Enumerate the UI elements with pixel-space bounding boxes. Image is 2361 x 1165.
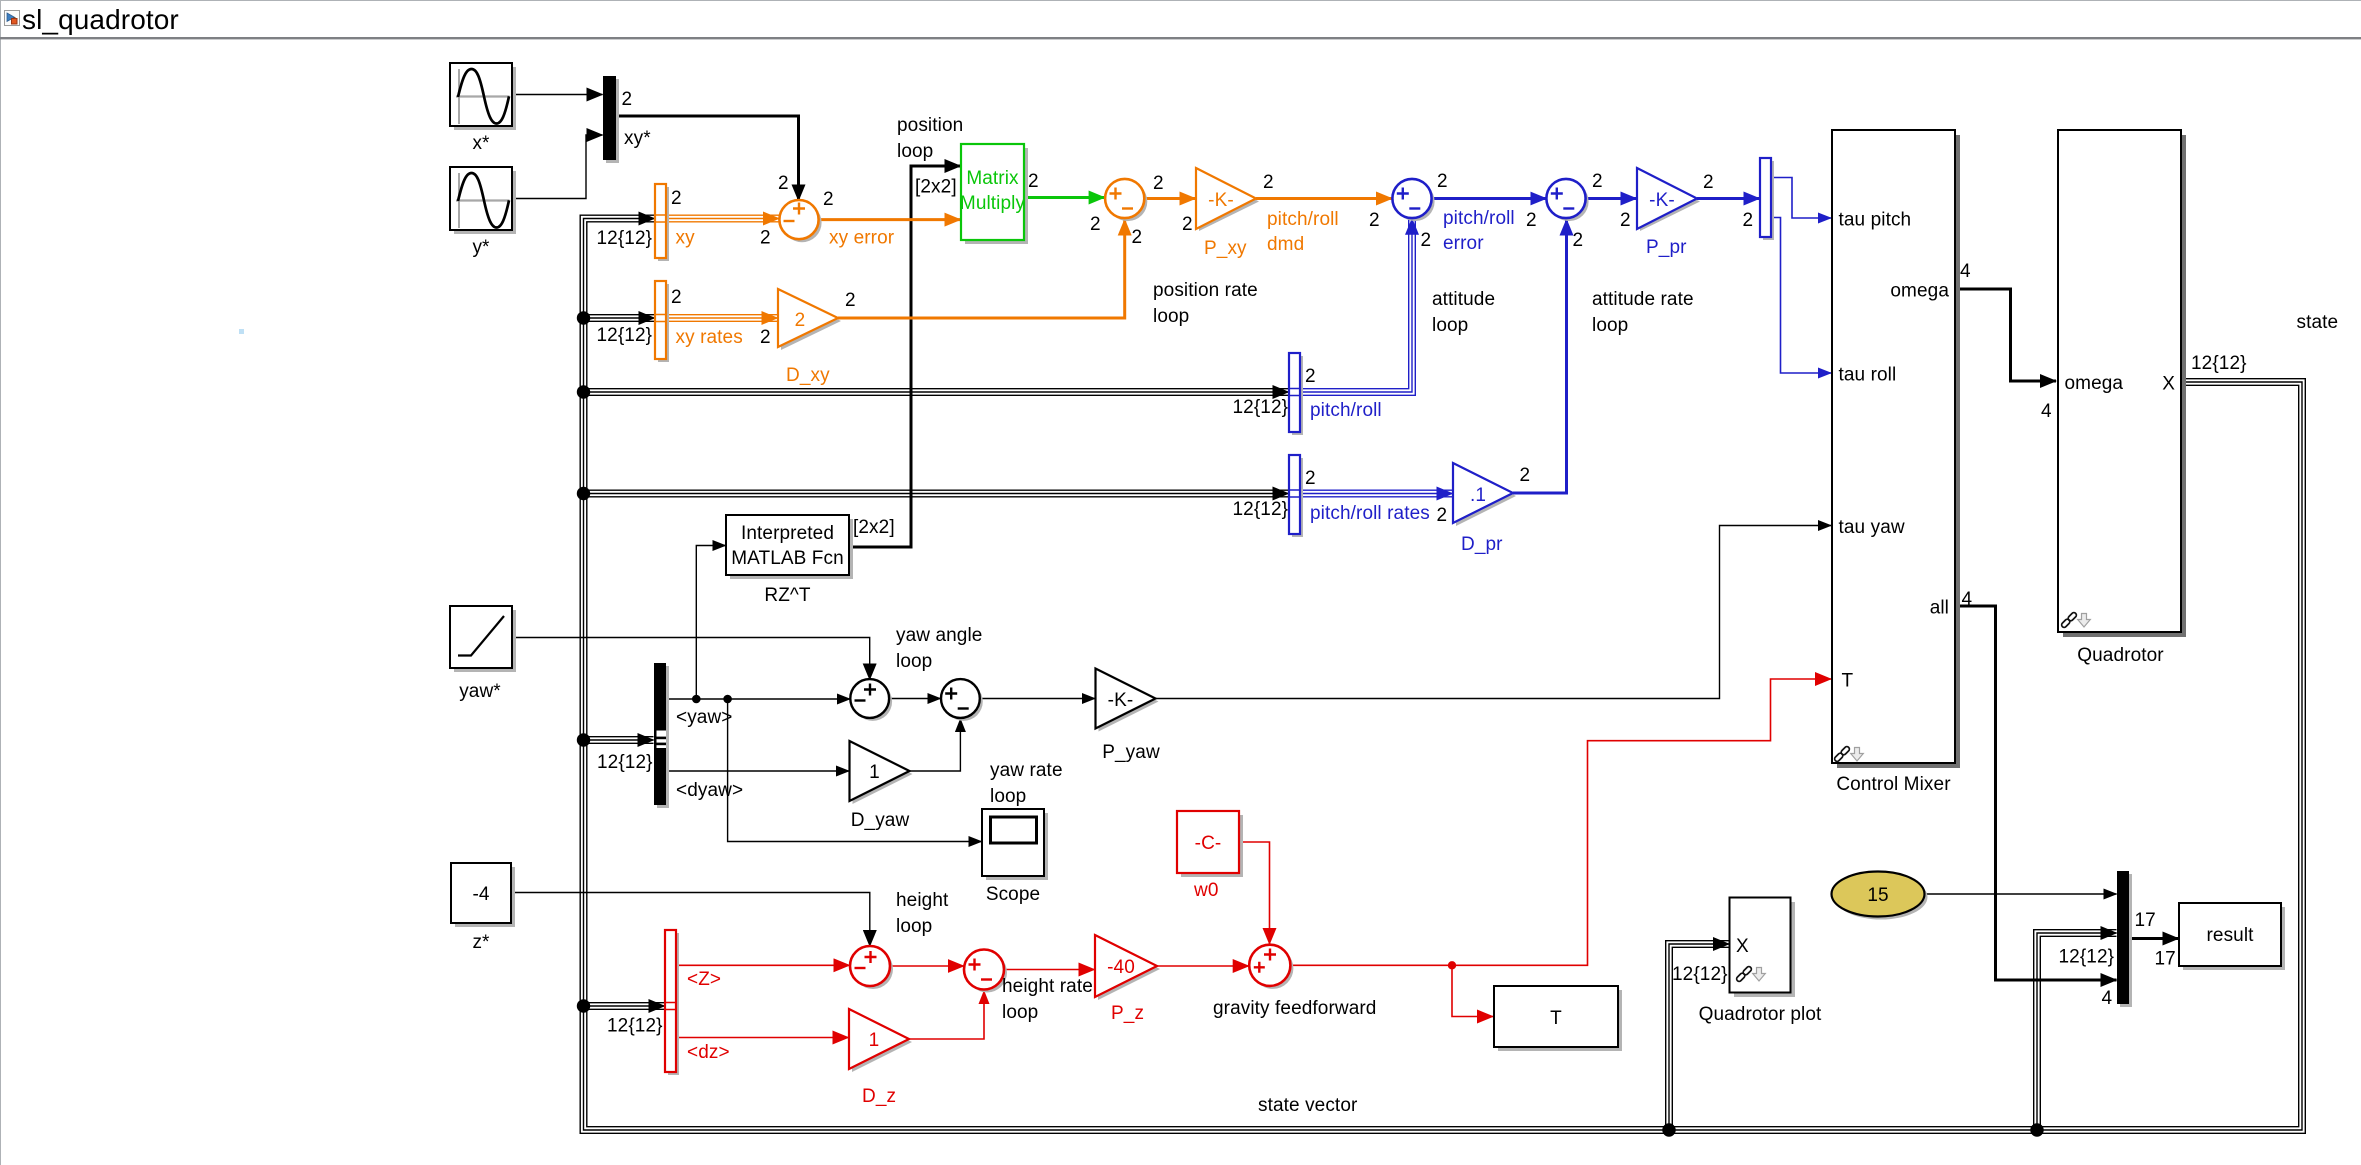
svg-text:loop: loop xyxy=(1432,315,1468,336)
block w0 constant (-C-, red) xyxy=(1177,811,1243,877)
titlebar icon xyxy=(5,11,20,26)
block xy selector (orange) xyxy=(655,184,669,261)
svg-text:2: 2 xyxy=(1132,227,1143,248)
wire bus branch to pitch/roll-rates selector xyxy=(584,490,1289,498)
wire yaw angle sum to yaw rate sum xyxy=(889,698,940,700)
svg-text:Quadrotor: Quadrotor xyxy=(2077,645,2164,666)
op sum height (red circle) xyxy=(850,946,893,989)
svg-text:position: position xyxy=(897,115,963,136)
svg-text:pitch/roll: pitch/roll xyxy=(1310,400,1382,421)
svg-text:tau pitch: tau pitch xyxy=(1839,210,1912,231)
svg-text:2: 2 xyxy=(1573,230,1584,251)
titlebar background xyxy=(0,0,2361,37)
op sum yaw angle (black circle) xyxy=(850,679,892,721)
wire tau demux out2 to Control Mixer tau roll (blue) xyxy=(1771,218,1831,374)
svg-text:-K-: -K- xyxy=(1649,190,1675,211)
wire RZ^T output to Matrix Multiply input ([2x2]) xyxy=(849,166,961,547)
svg-text:y*: y* xyxy=(472,237,490,258)
block result mux xyxy=(2117,871,2132,1007)
wire D_yaw to yaw rate sum bottom xyxy=(910,719,961,771)
icon link badge Quadrotor plot xyxy=(1736,966,1766,983)
svg-text:T: T xyxy=(1842,671,1854,692)
svg-text:2: 2 xyxy=(1620,210,1631,231)
artifact tiny cursor mark xyxy=(239,329,244,334)
wire position-rate sum to P_xy gain (orange) xyxy=(1145,197,1196,200)
svg-text:P_yaw: P_yaw xyxy=(1102,742,1160,763)
wire P_xy to attitude sum (pitch/roll dmd, orange) xyxy=(1256,197,1392,200)
svg-text:12{12}: 12{12} xyxy=(597,228,653,249)
svg-text:sl_quadrotor: sl_quadrotor xyxy=(22,4,179,35)
svg-text:yaw*: yaw* xyxy=(459,681,501,702)
wire yaw* ramp to yaw sum top xyxy=(512,638,870,680)
svg-text:2: 2 xyxy=(671,287,682,308)
svg-text:position rate: position rate xyxy=(1153,280,1258,301)
wire D_pr to attitude-rate sum bottom (blue) xyxy=(1513,220,1567,494)
svg-text:12{12}: 12{12} xyxy=(1672,964,1728,985)
block z* constant (-4) xyxy=(451,863,515,927)
block P_xy gain (orange triangle, -K-) xyxy=(1196,168,1259,231)
wire <yaw> branch to RZ^T fcn input xyxy=(696,546,725,700)
svg-text:error: error xyxy=(1443,233,1484,254)
svg-text:17: 17 xyxy=(2155,949,2176,970)
svg-text:P_pr: P_pr xyxy=(1646,237,1687,258)
wire x* to xy* mux xyxy=(512,94,603,96)
block tau demux (blue) xyxy=(1760,158,1774,240)
block yaw demux (bus selector) xyxy=(654,663,669,808)
svg-text:1: 1 xyxy=(869,1030,880,1051)
svg-text:12{12}: 12{12} xyxy=(607,1016,663,1037)
wire xy-error sum to Matrix Multiply (orange) xyxy=(819,218,961,221)
block Quadrotor plot xyxy=(1730,898,1796,998)
wire Matrix Multiply to position-rate sum (green) xyxy=(1024,196,1105,199)
svg-text:all: all xyxy=(1930,598,1949,619)
wire Control Mixer omega to Quadrotor omega xyxy=(1955,289,2056,381)
icon link badge Control Mixer xyxy=(1834,746,1864,763)
block Control Mixer (subsystem) xyxy=(1832,130,1960,768)
svg-text:<dz>: <dz> xyxy=(687,1042,730,1063)
junction bottom bus at result mux branch xyxy=(2030,1123,2043,1136)
block y* sine wave source xyxy=(450,167,516,234)
wire w0 constant to gravity feedforward sum top (red) xyxy=(1239,842,1270,944)
wire z* constant to height sum top xyxy=(511,893,870,947)
svg-text:12{12}: 12{12} xyxy=(597,752,653,773)
svg-text:4: 4 xyxy=(2102,988,2113,1009)
svg-text:2: 2 xyxy=(1305,366,1316,387)
svg-text:<Z>: <Z> xyxy=(687,969,721,990)
svg-text:17: 17 xyxy=(2135,910,2156,931)
wire <dyaw> to D_yaw gain xyxy=(666,770,849,772)
svg-text:gravity feedforward: gravity feedforward xyxy=(1213,998,1376,1019)
wire D_xy gain to position-rate sum bottom (orange) xyxy=(838,220,1125,319)
svg-text:height rate: height rate xyxy=(1002,976,1093,997)
svg-text:2: 2 xyxy=(1305,468,1316,489)
op sum attitude-rate (blue circle) xyxy=(1546,179,1588,221)
wire bus branch to result mux xyxy=(2037,933,2117,1130)
svg-text:D_z: D_z xyxy=(862,1086,896,1107)
svg-text:loop: loop xyxy=(990,786,1026,807)
svg-text:<yaw>: <yaw> xyxy=(676,707,732,728)
svg-text:Scope: Scope xyxy=(986,884,1040,905)
svg-text:.1: .1 xyxy=(1470,485,1486,506)
svg-text:loop: loop xyxy=(896,651,932,672)
svg-text:P_xy: P_xy xyxy=(1204,238,1247,259)
block pitch/roll-rates selector (blue) xyxy=(1289,455,1303,537)
svg-text:xy error: xy error xyxy=(829,228,895,249)
block xy-rates selector (orange) xyxy=(655,281,669,362)
svg-text:-C-: -C- xyxy=(1195,833,1222,854)
wire y* to xy* mux xyxy=(512,135,603,199)
svg-text:loop: loop xyxy=(1002,1002,1038,1023)
wire bus branch to Quadrotor plot xyxy=(1669,944,1729,1130)
svg-text:2: 2 xyxy=(1421,230,1432,251)
block result xyxy=(2179,903,2285,970)
svg-text:2: 2 xyxy=(1153,173,1164,194)
svg-text:Multiply: Multiply xyxy=(960,193,1026,214)
svg-text:2: 2 xyxy=(1526,210,1537,231)
wire 15 constant to result mux xyxy=(1925,893,2117,895)
svg-text:attitude rate: attitude rate xyxy=(1592,289,1694,310)
svg-text:yaw angle: yaw angle xyxy=(896,625,982,646)
svg-text:xy rates: xy rates xyxy=(676,327,743,348)
op sum xy error (orange circle) xyxy=(779,200,821,242)
op sum height-rate (red circle) xyxy=(964,950,1007,993)
block RZ^T Interpreted MATLAB Fcn xyxy=(726,515,853,579)
wire P_z to gravity feedforward sum (red) xyxy=(1157,965,1249,967)
op sum gravity feedforward (red circle) xyxy=(1249,945,1293,989)
wire xy* mux to xy-error sum top (vector) xyxy=(616,116,799,201)
svg-text:pitch/roll: pitch/roll xyxy=(1267,209,1339,230)
svg-text:P_z: P_z xyxy=(1111,1003,1144,1024)
svg-text:-40: -40 xyxy=(1107,957,1135,978)
op sum position-rate (orange circle) xyxy=(1105,179,1147,221)
svg-text:height: height xyxy=(896,890,949,911)
svg-text:xy: xy xyxy=(676,228,696,249)
svg-text:loop: loop xyxy=(1592,315,1628,336)
junction bus spine at xy-rates branch xyxy=(577,311,590,324)
svg-text:12{12}: 12{12} xyxy=(1233,499,1289,520)
icon link badge Quadrotor xyxy=(2061,612,2091,629)
svg-text:-K-: -K- xyxy=(1208,190,1234,211)
svg-text:state: state xyxy=(2297,312,2339,333)
block T goto xyxy=(1494,986,1622,1051)
svg-text:4: 4 xyxy=(1962,589,1973,610)
wire bus branch to yaw demux xyxy=(584,736,654,744)
svg-text:2: 2 xyxy=(795,310,806,331)
svg-text:2: 2 xyxy=(1369,210,1380,231)
wire attitude sum to attitude-rate sum (blue, pitch/roll error) xyxy=(1432,197,1546,200)
wire state-vector feedback bus: Quadrotor X out, right drop, bottom run, left spine up to xy selector xyxy=(584,219,2303,1131)
svg-text:12{12}: 12{12} xyxy=(2191,353,2247,374)
wire bus branch to z selector xyxy=(584,1002,665,1010)
svg-text:2: 2 xyxy=(1090,214,1101,235)
svg-text:MATLAB Fcn: MATLAB Fcn xyxy=(731,548,844,569)
wire xy selector to xy-error sum (orange bus) xyxy=(666,215,779,223)
block Matrix Multiply (green) xyxy=(960,144,1028,244)
block P_z gain (red triangle, -40) xyxy=(1095,935,1160,1000)
svg-text:2: 2 xyxy=(760,228,771,249)
svg-text:-4: -4 xyxy=(472,884,489,905)
svg-text:2: 2 xyxy=(1263,172,1274,193)
junction bottom bus at Quadrotor plot branch xyxy=(1662,1123,1675,1136)
block P_yaw gain (triangle, -K-) xyxy=(1096,669,1159,732)
svg-text:D_pr: D_pr xyxy=(1461,534,1503,555)
wire yaw rate sum to P_yaw gain xyxy=(980,698,1095,700)
svg-text:z*: z* xyxy=(472,932,490,953)
svg-text:2: 2 xyxy=(671,188,682,209)
svg-text:tau roll: tau roll xyxy=(1839,365,1897,386)
block x* sine wave source xyxy=(450,63,516,130)
svg-text:1: 1 xyxy=(869,762,880,783)
svg-text:2: 2 xyxy=(1703,172,1714,193)
svg-text:X: X xyxy=(1736,936,1749,957)
wire height-rate sum to P_z gain (red) xyxy=(1004,969,1094,971)
svg-text:2: 2 xyxy=(1743,210,1754,231)
wire <yaw> to yaw angle sum xyxy=(666,698,850,700)
block yaw* ramp source xyxy=(450,606,516,672)
svg-text:omega: omega xyxy=(1890,281,1949,302)
svg-text:2: 2 xyxy=(1437,505,1448,526)
svg-text:2: 2 xyxy=(823,189,834,210)
svg-text:-K-: -K- xyxy=(1108,690,1134,711)
titlebar separator xyxy=(0,37,2361,39)
svg-text:pitch/roll rates: pitch/roll rates xyxy=(1310,503,1430,524)
block Scope xyxy=(982,809,1048,880)
block P_pr gain (blue triangle, -K-) xyxy=(1637,168,1700,231)
svg-text:Interpreted: Interpreted xyxy=(741,523,834,544)
wire bus branch to xy-rates selector xyxy=(584,314,655,322)
svg-text:attitude: attitude xyxy=(1432,289,1495,310)
op sum yaw rate (black circle) xyxy=(941,679,983,721)
block D_z gain (red triangle, 1) xyxy=(849,1009,912,1072)
junction yaw line to Scope xyxy=(723,695,732,704)
svg-text:2: 2 xyxy=(1592,171,1603,192)
svg-text:[2x2]: [2x2] xyxy=(915,177,957,198)
svg-text:D_xy: D_xy xyxy=(786,365,830,386)
svg-text:pitch/roll: pitch/roll xyxy=(1443,208,1515,229)
wire gravity feedforward sum to Control Mixer T input (red) xyxy=(1290,679,1831,965)
wire P_yaw to Control Mixer tau yaw xyxy=(1156,526,1832,699)
svg-text:Control Mixer: Control Mixer xyxy=(1836,774,1951,795)
svg-text:4: 4 xyxy=(1960,261,1971,282)
block z selector (red) xyxy=(665,930,679,1075)
wire <dz> to D_z gain (red) xyxy=(676,1037,849,1039)
svg-text:4: 4 xyxy=(2041,401,2052,422)
svg-text:Matrix: Matrix xyxy=(966,168,1019,189)
block D_xy gain (orange triangle, value 2) xyxy=(778,289,841,350)
junction bus spine at z branch xyxy=(577,999,590,1012)
junction thrust branch dot xyxy=(1448,961,1456,969)
svg-text:x*: x* xyxy=(472,133,490,154)
junction yaw line to RZ^T xyxy=(692,695,701,704)
svg-text:2: 2 xyxy=(1437,171,1448,192)
wire bus branch to pitch/roll selector xyxy=(584,388,1289,396)
svg-text:2: 2 xyxy=(1182,214,1193,235)
svg-text:xy*: xy* xyxy=(624,128,651,149)
block 15 constant (yellow oval) xyxy=(1832,872,1928,920)
junction bus spine at yaw branch xyxy=(577,733,590,746)
block pitch/roll selector (blue) xyxy=(1289,353,1303,435)
svg-text:Quadrotor plot: Quadrotor plot xyxy=(1699,1004,1822,1025)
svg-text:[2x2]: [2x2] xyxy=(853,517,895,538)
wire thrust branch to T goto block (red) xyxy=(1452,965,1493,1016)
svg-text:2: 2 xyxy=(845,290,856,311)
block Quadrotor (subsystem) xyxy=(2058,130,2186,637)
svg-text:RZ^T: RZ^T xyxy=(764,585,811,606)
svg-text:tau yaw: tau yaw xyxy=(1839,517,1905,538)
wire pitch/roll-rates selector to D_pr gain (blue bus) xyxy=(1300,490,1453,498)
wire attitude-rate sum to P_pr gain (blue) xyxy=(1586,197,1637,200)
svg-text:T: T xyxy=(1550,1008,1562,1029)
svg-text:w0: w0 xyxy=(1193,880,1219,901)
wire result mux to result block xyxy=(2129,937,2179,940)
svg-text:omega: omega xyxy=(2065,373,2124,394)
svg-text:loop: loop xyxy=(1153,306,1189,327)
junction bus spine at pitch/roll-rates branch xyxy=(577,487,590,500)
svg-text:D_yaw: D_yaw xyxy=(851,810,910,831)
svg-text:2: 2 xyxy=(1028,171,1039,192)
svg-text:2: 2 xyxy=(1520,465,1531,486)
svg-text:2: 2 xyxy=(760,327,771,348)
wire P_pr to tau demux (blue) xyxy=(1697,197,1760,200)
wire <yaw> branch to Scope xyxy=(728,699,982,842)
wire xy-rates selector to D_xy gain (orange bus) xyxy=(666,314,778,322)
svg-text:<dyaw>: <dyaw> xyxy=(676,780,743,801)
svg-text:2: 2 xyxy=(778,173,789,194)
svg-text:loop: loop xyxy=(897,141,933,162)
svg-text:dmd: dmd xyxy=(1267,234,1304,255)
svg-text:state vector: state vector xyxy=(1258,1095,1358,1116)
svg-text:12{12}: 12{12} xyxy=(597,325,653,346)
wire <Z> to height sum (red) xyxy=(676,964,850,966)
svg-text:yaw rate: yaw rate xyxy=(990,760,1063,781)
svg-text:2: 2 xyxy=(622,89,633,110)
junction bus spine at pitch/roll branch xyxy=(577,385,590,398)
wire D_z to height-rate sum bottom (red) xyxy=(909,991,984,1039)
svg-text:12{12}: 12{12} xyxy=(2059,947,2115,968)
wire height sum to height-rate sum (red) xyxy=(890,965,964,967)
svg-text:X: X xyxy=(2162,374,2175,395)
svg-text:result: result xyxy=(2206,925,2254,946)
block D_pr gain (blue triangle, .1) xyxy=(1453,463,1516,526)
wire Control Mixer all to result mux xyxy=(1955,606,2117,980)
wire pitch/roll selector to attitude sum (blue bus) xyxy=(1300,219,1412,392)
svg-text:12{12}: 12{12} xyxy=(1233,397,1289,418)
block D_yaw gain (triangle, 1) xyxy=(850,741,913,804)
op sum attitude (blue circle) xyxy=(1392,179,1434,221)
svg-text:15: 15 xyxy=(1867,885,1888,906)
block xy* mux xyxy=(603,76,619,163)
svg-text:loop: loop xyxy=(896,916,932,937)
wire tau demux out1 to Control Mixer tau pitch (blue) xyxy=(1771,178,1831,219)
